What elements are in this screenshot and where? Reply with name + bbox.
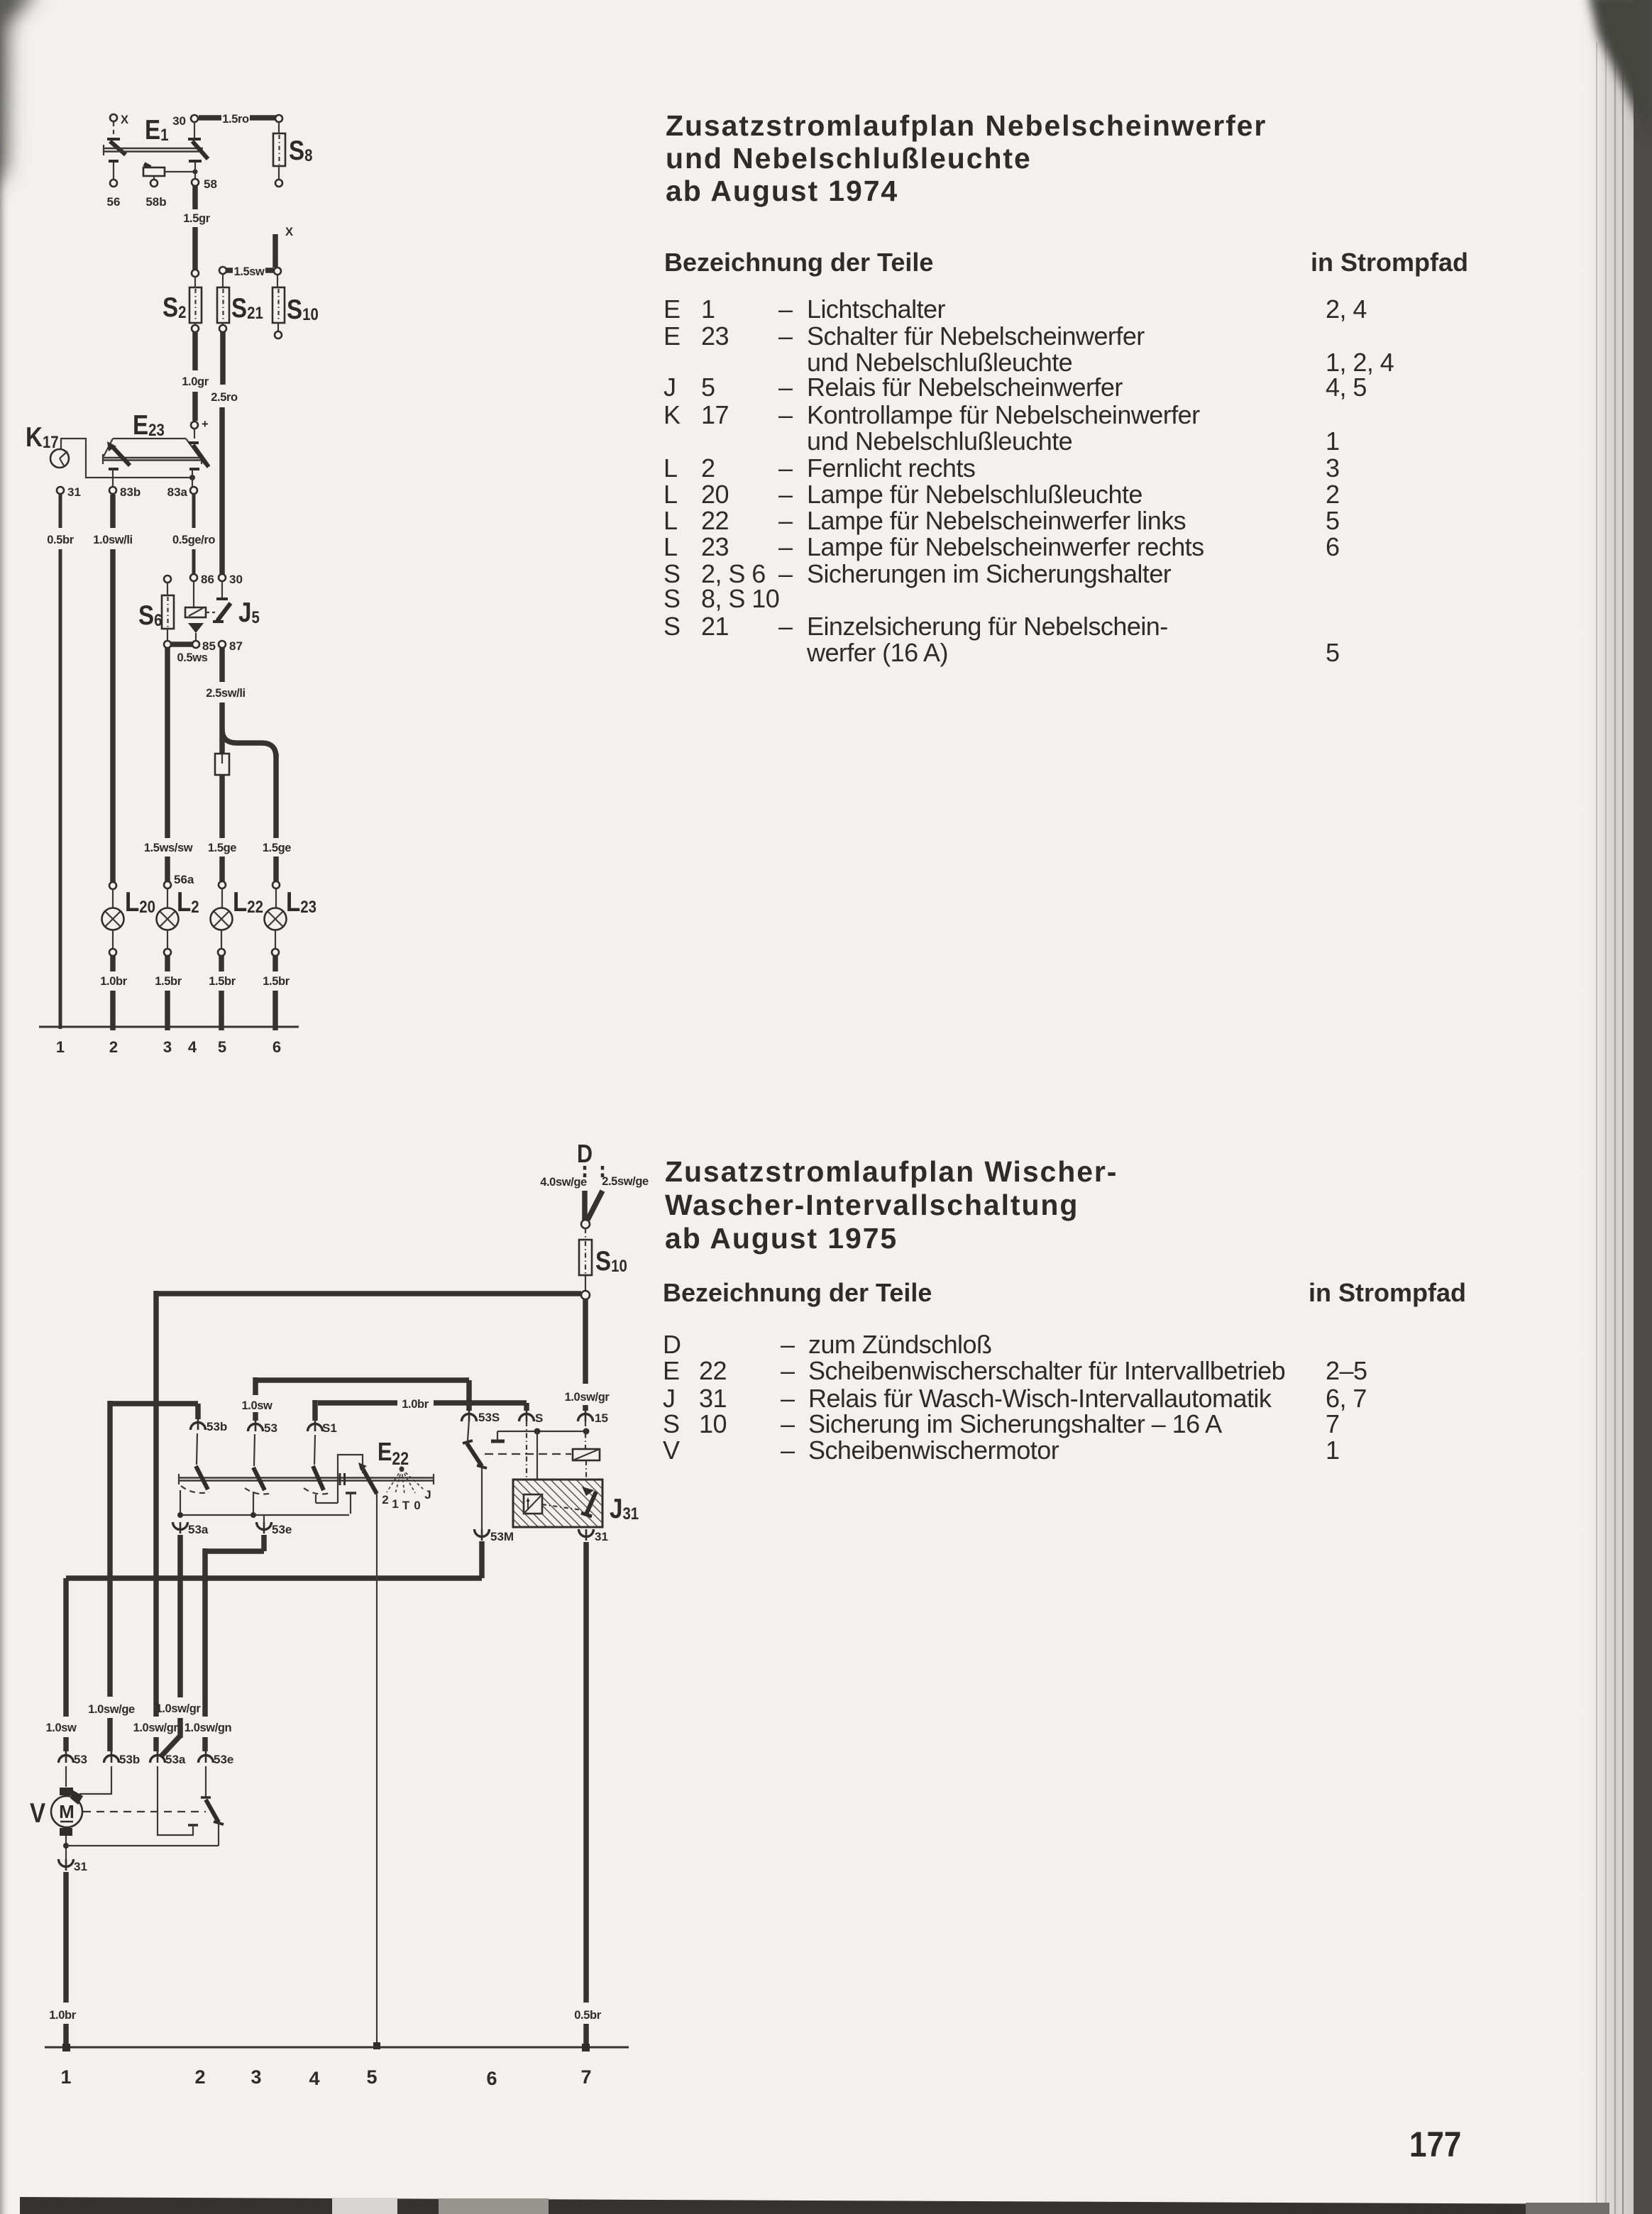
- wire 53M return: [46, 1541, 482, 1751]
- switch E23: [103, 409, 209, 487]
- svg-text:31: 31: [699, 1384, 727, 1413]
- node 85 / 87: [170, 639, 243, 664]
- svg-text:2: 2: [1326, 480, 1339, 509]
- svg-text:Lampe für Nebelscheinwerfer re: Lampe für Nebelscheinwerfer rechts: [807, 532, 1204, 561]
- svg-text:1.0sw/gr: 1.0sw/gr: [156, 1702, 202, 1715]
- svg-text:werfer (16 A): werfer (16 A): [806, 638, 948, 667]
- svg-text:1.5br: 1.5br: [155, 975, 182, 988]
- wire 1.5br lamp L22 to earth: [209, 956, 236, 1030]
- svg-text:V: V: [30, 1797, 45, 1828]
- svg-text:Lichtschalter: Lichtschalter: [807, 294, 946, 324]
- current path numbers 1-6: [56, 1038, 281, 1056]
- svg-text:30: 30: [229, 573, 243, 586]
- svg-text:1: 1: [56, 1038, 65, 1056]
- fuse S10: [579, 1240, 627, 1291]
- node D (to ignition switch): [577, 1140, 602, 1179]
- svg-text:und Nebelschlußleuchte: und Nebelschlußleuchte: [807, 426, 1072, 456]
- svg-text:–: –: [778, 532, 793, 561]
- svg-text:Zusatzstromlaufplan Wischer-: Zusatzstromlaufplan Wischer-: [665, 1155, 1118, 1188]
- svg-text:1.5ge: 1.5ge: [263, 842, 291, 854]
- svg-text:1.0sw/ge: 1.0sw/ge: [88, 1703, 135, 1716]
- right dark book edge: [1634, 0, 1652, 2214]
- svg-text:2, 4: 2, 4: [1326, 294, 1367, 324]
- svg-text:1: 1: [701, 294, 715, 324]
- svg-text:–: –: [781, 1356, 795, 1385]
- svg-text:Scheibenwischermotor: Scheibenwischermotor: [808, 1436, 1059, 1465]
- svg-text:1: 1: [1326, 426, 1339, 456]
- relay contact 53S/53M: [463, 1420, 514, 1543]
- svg-text:L: L: [663, 480, 677, 509]
- fuse S6: [138, 575, 174, 648]
- wire 2.5ro: [211, 332, 238, 574]
- top-left corner shadow: [0, 0, 39, 192]
- svg-text:–: –: [778, 453, 793, 483]
- wire 0.5ge/ro: [172, 495, 215, 574]
- svg-text:Sicherungen im Sicherungshalte: Sicherungen im Sicherungshalter: [807, 559, 1172, 588]
- svg-text:2–5: 2–5: [1326, 1356, 1367, 1385]
- svg-text:Lampe für Nebelschlußleuchte: Lampe für Nebelschlußleuchte: [807, 480, 1142, 509]
- svg-text:–: –: [781, 1384, 795, 1413]
- svg-text:56: 56: [107, 195, 121, 209]
- svg-text:1.0gr: 1.0gr: [182, 375, 209, 388]
- wire 1.5ro: [199, 113, 282, 126]
- svg-text:L: L: [663, 453, 677, 483]
- svg-text:–: –: [778, 400, 793, 429]
- svg-text:30: 30: [172, 114, 186, 128]
- svg-text:Lampe für Nebelscheinwerfer li: Lampe für Nebelscheinwerfer links: [807, 506, 1186, 535]
- svg-text:Sicherung im Sicherungshalter: Sicherung im Sicherungshalter – 16 A: [808, 1409, 1222, 1438]
- svg-text:Bezeichnung der Teile: Bezeichnung der Teile: [664, 248, 933, 277]
- wire branch to lamp L23: [222, 729, 291, 881]
- svg-text:4: 4: [188, 1038, 197, 1056]
- svg-text:177: 177: [1409, 2124, 1461, 2164]
- svg-text:6: 6: [272, 1038, 281, 1056]
- wire 1.0sw to 53: [242, 1377, 277, 1466]
- svg-text:Einzelsicherung für Nebelschei: Einzelsicherung für Nebelschein-: [807, 612, 1168, 641]
- svg-text:83b: 83b: [120, 485, 141, 499]
- E22 output rail: [177, 1490, 349, 1523]
- svg-text:31: 31: [74, 1860, 87, 1873]
- svg-text:4: 4: [309, 2068, 319, 2089]
- svg-text:6, 7: 6, 7: [1326, 1384, 1367, 1413]
- fuse S8: [273, 122, 312, 187]
- svg-text:J: J: [663, 373, 676, 402]
- wire 2.5sw/ge: [588, 1175, 649, 1220]
- lamp L22: [211, 881, 263, 956]
- node above fuse S10: [581, 1220, 590, 1240]
- svg-text:zum Zündschloß: zum Zündschloß: [808, 1330, 991, 1359]
- svg-text:2: 2: [109, 1038, 118, 1056]
- connector 53b (motor): [79, 1751, 140, 1794]
- svg-text:Scheibenwischerschalter für In: Scheibenwischerschalter für Intervallbet…: [808, 1356, 1285, 1385]
- connector 53a (motor): [150, 1751, 199, 1835]
- svg-text:58b: 58b: [145, 195, 166, 209]
- svg-text:M: M: [59, 1801, 75, 1822]
- switch E22: [179, 1438, 434, 1514]
- node 56a: [164, 873, 194, 888]
- wire 1.5ws/sw: [144, 648, 193, 881]
- svg-text:–: –: [778, 294, 793, 324]
- svg-text:J: J: [424, 1488, 431, 1502]
- svg-text:X: X: [121, 114, 128, 126]
- connector 53e (motor): [199, 1751, 234, 1797]
- node 30: [172, 114, 198, 138]
- wire 53e from switch: [185, 1522, 292, 1751]
- svg-text:V: V: [663, 1436, 680, 1465]
- node 31 / 83b / 83a: [57, 485, 197, 499]
- svg-text:53a: 53a: [188, 1523, 209, 1536]
- svg-text:S: S: [663, 1409, 679, 1438]
- svg-text:1.5ws/sw: 1.5ws/sw: [144, 842, 193, 854]
- svg-text:–: –: [778, 612, 793, 641]
- svg-text:1.5ro: 1.5ro: [222, 113, 249, 126]
- main feed wire from S10 to left: [156, 1291, 581, 1296]
- svg-text:1.5sw: 1.5sw: [234, 265, 265, 278]
- svg-text:10: 10: [699, 1409, 727, 1438]
- wire 1.0br lamp L20 to earth: [100, 956, 127, 1030]
- svg-text:E: E: [663, 294, 680, 324]
- svg-text:Zusatzstromlaufplan Nebelschei: Zusatzstromlaufplan Nebelscheinwerfer: [666, 109, 1267, 142]
- svg-text:1: 1: [392, 1497, 398, 1511]
- node X (terminal X of light switch): [110, 114, 128, 138]
- svg-text:20: 20: [701, 480, 729, 509]
- svg-text:Relais für Wasch-Wisch-Interva: Relais für Wasch-Wisch-Intervallautomati…: [808, 1384, 1272, 1413]
- svg-text:7: 7: [1326, 1409, 1339, 1438]
- svg-text:–: –: [778, 480, 793, 509]
- fuse S2: [163, 277, 202, 332]
- wire 2.5sw/li: [206, 648, 246, 754]
- svg-text:T: T: [402, 1499, 410, 1512]
- svg-text:31: 31: [67, 485, 81, 499]
- earth bus diagram 1: [39, 1026, 299, 1028]
- svg-text:0.5br: 0.5br: [574, 2009, 601, 2022]
- svg-text:1.0sw/gr: 1.0sw/gr: [133, 1722, 179, 1734]
- svg-text:1: 1: [60, 2066, 71, 2088]
- connector 53 (motor): [59, 1751, 87, 1787]
- wire 1.5gr: [183, 186, 210, 277]
- svg-text:Relais für Nebelscheinwerfer: Relais für Nebelscheinwerfer: [807, 373, 1123, 402]
- svg-text:4.0sw/ge: 4.0sw/ge: [540, 1176, 587, 1189]
- fuse S10: [272, 275, 319, 338]
- switch E1: [104, 114, 208, 161]
- relay J31: [513, 1480, 639, 1527]
- wire 1.0br motor to earth: [49, 1872, 76, 2045]
- svg-text:21: 21: [701, 612, 729, 641]
- svg-text:Wascher-Intervallschaltung: Wascher-Intervallschaltung: [665, 1189, 1079, 1221]
- svg-text:56a: 56a: [174, 873, 194, 886]
- svg-text:ab August 1974: ab August 1974: [666, 175, 898, 207]
- svg-text:5: 5: [366, 2066, 377, 2088]
- svg-text:53: 53: [264, 1421, 277, 1435]
- svg-text:1.0br: 1.0br: [402, 1398, 429, 1411]
- current path numbers 1-7: [60, 2066, 591, 2089]
- svg-text:0.5ge/ro: 0.5ge/ro: [172, 534, 215, 546]
- svg-text:–: –: [778, 373, 793, 402]
- svg-text:D: D: [577, 1140, 593, 1169]
- svg-text:2.5sw/li: 2.5sw/li: [206, 687, 246, 700]
- svg-text:5: 5: [1326, 638, 1339, 667]
- svg-text:53b: 53b: [206, 1420, 227, 1433]
- svg-text:6: 6: [486, 2068, 497, 2089]
- svg-text:23: 23: [701, 532, 729, 561]
- motor limit switch: [83, 1797, 224, 1846]
- column headers 1: [664, 248, 1468, 277]
- svg-text:und Nebelschlußleuchte: und Nebelschlußleuchte: [666, 142, 1032, 175]
- svg-text:1.0sw: 1.0sw: [242, 1399, 273, 1412]
- svg-text:Schalter für Nebelscheinwerfer: Schalter für Nebelscheinwerfer: [807, 321, 1145, 351]
- svg-text:2: 2: [194, 2066, 205, 2088]
- svg-text:53a: 53a: [165, 1753, 186, 1766]
- svg-text:53e: 53e: [214, 1753, 233, 1766]
- svg-text:15: 15: [595, 1411, 608, 1425]
- svg-text:–: –: [778, 559, 793, 588]
- svg-text:in Strompfad: in Strompfad: [1309, 1278, 1466, 1307]
- svg-text:–: –: [781, 1436, 795, 1465]
- svg-text:3: 3: [250, 2066, 261, 2088]
- earth bus diagram 2: [45, 2044, 629, 2051]
- wire to 53S: [255, 1380, 500, 1424]
- wire 1.5ge (path 5): [208, 775, 236, 881]
- wire 4.0sw/ge: [540, 1176, 587, 1221]
- svg-text:0.5ws: 0.5ws: [177, 651, 208, 664]
- junction node under S10: [581, 1291, 590, 1299]
- svg-text:2: 2: [701, 453, 715, 483]
- svg-text:86: 86: [201, 573, 214, 586]
- relay contact fixed terminal: [491, 1428, 590, 1495]
- svg-text:5: 5: [1326, 506, 1339, 535]
- wire 1.5br lamp L2 to earth: [155, 956, 182, 1030]
- wire 1.5sw: [219, 265, 274, 278]
- svg-text:S: S: [535, 1411, 543, 1425]
- svg-text:1.5ge: 1.5ge: [208, 842, 236, 854]
- lamp L2: [157, 886, 199, 956]
- wire 1.5br lamp L23 to earth: [263, 956, 290, 1030]
- svg-text:87: 87: [229, 639, 243, 653]
- wire 1.0sw/gr (path to 53a): [133, 1291, 179, 1751]
- svg-text:1.0sw/gr: 1.0sw/gr: [565, 1391, 610, 1404]
- svg-text:83a: 83a: [167, 485, 188, 499]
- relay coil J31: [485, 1421, 600, 1480]
- svg-text:1.0sw/li: 1.0sw/li: [93, 534, 133, 546]
- wire J from switch to earth: [373, 1494, 380, 2049]
- svg-text:J: J: [663, 1384, 675, 1413]
- node X feed: [274, 226, 293, 275]
- svg-text:2: 2: [382, 1493, 388, 1507]
- dimmer 58b: [143, 163, 198, 209]
- svg-text:4, 5: 4, 5: [1326, 373, 1367, 402]
- svg-text:8, S 10: 8, S 10: [701, 584, 779, 613]
- svg-text:53S: 53S: [478, 1411, 500, 1424]
- svg-text:Kontrollampe für Nebelscheinwe: Kontrollampe für Nebelscheinwerfer: [807, 400, 1200, 429]
- lamp K17: [26, 421, 192, 478]
- wire 1.0br to S: [308, 1398, 544, 1465]
- svg-text:–: –: [778, 321, 793, 351]
- wire 1.0sw/li: [93, 495, 133, 882]
- column headers 2: [663, 1278, 1466, 1307]
- wire 1.0gr: [182, 332, 209, 431]
- svg-text:E: E: [663, 321, 680, 351]
- svg-text:31: 31: [595, 1530, 608, 1543]
- node 86 / 30: [190, 573, 243, 586]
- svg-text:17: 17: [701, 400, 729, 429]
- motor V: [30, 1788, 83, 1836]
- svg-text:in Strompfad: in Strompfad: [1311, 248, 1468, 277]
- svg-text:K: K: [663, 400, 681, 429]
- right page stack: [1580, 0, 1652, 2214]
- svg-text:5: 5: [701, 373, 715, 402]
- motor earth wire: [59, 1836, 219, 1873]
- left page edge shading: [0, 0, 11, 2214]
- bottom scan bar: [20, 2197, 1609, 2214]
- svg-text:1.0br: 1.0br: [100, 975, 127, 988]
- svg-text:6: 6: [1326, 532, 1339, 561]
- svg-text:–: –: [778, 506, 793, 535]
- svg-text:1.0br: 1.0br: [49, 2009, 76, 2022]
- lamp L20: [102, 882, 155, 956]
- connector on wire 5: [215, 754, 229, 775]
- lamp L23: [265, 881, 316, 956]
- wire 1.0sw/gr (feed to terminal 15): [565, 1299, 610, 1425]
- svg-text:+: +: [202, 418, 208, 431]
- svg-text:S1: S1: [322, 1421, 337, 1435]
- svg-text:1.0sw/gn: 1.0sw/gn: [185, 1722, 232, 1734]
- node 58: [192, 177, 217, 191]
- svg-text:53e: 53e: [272, 1523, 292, 1536]
- svg-text:L: L: [663, 506, 677, 535]
- node 56: [107, 163, 121, 209]
- svg-text:L: L: [663, 532, 677, 561]
- svg-text:22: 22: [701, 506, 729, 535]
- wire 0.5br from J31 to earth: [574, 1529, 608, 2045]
- svg-text:53b: 53b: [119, 1753, 140, 1766]
- svg-text:3: 3: [163, 1038, 172, 1056]
- svg-text:22: 22: [699, 1356, 727, 1385]
- svg-text:53M: 53M: [490, 1530, 514, 1543]
- svg-text:58: 58: [204, 177, 217, 191]
- svg-text:5: 5: [218, 1038, 226, 1056]
- svg-text:2.5ro: 2.5ro: [211, 391, 238, 404]
- relay J5: [185, 581, 260, 641]
- svg-text:1.5br: 1.5br: [209, 975, 236, 988]
- svg-text:1: 1: [1326, 1436, 1339, 1465]
- svg-text:1.0sw: 1.0sw: [46, 1722, 77, 1734]
- svg-text:D: D: [663, 1330, 681, 1359]
- wire 0.5br: [47, 495, 74, 1029]
- svg-text:Bezeichnung der Teile: Bezeichnung der Teile: [663, 1278, 932, 1307]
- svg-text:S: S: [663, 612, 680, 641]
- title block 1: [666, 109, 1267, 207]
- svg-text:0: 0: [414, 1499, 420, 1512]
- svg-text:E: E: [663, 1356, 679, 1385]
- parts list 1: [663, 294, 1394, 667]
- svg-text:53: 53: [74, 1753, 87, 1766]
- svg-text:ab August 1975: ab August 1975: [665, 1222, 898, 1255]
- svg-text:23: 23: [701, 321, 729, 351]
- svg-text:0.5br: 0.5br: [47, 534, 74, 546]
- wire 53a from switch: [156, 1522, 209, 1757]
- svg-text:7: 7: [580, 2066, 591, 2088]
- svg-text:1.5gr: 1.5gr: [183, 212, 210, 225]
- svg-text:2.5sw/ge: 2.5sw/ge: [602, 1175, 649, 1188]
- svg-text:–: –: [781, 1330, 795, 1359]
- svg-text:X: X: [285, 226, 293, 238]
- title block 2: [665, 1155, 1118, 1255]
- svg-text:Fernlicht rechts: Fernlicht rechts: [807, 453, 975, 483]
- parts list 2: [663, 1330, 1367, 1465]
- svg-text:S: S: [663, 584, 680, 613]
- svg-text:–: –: [781, 1409, 795, 1438]
- svg-text:3: 3: [1326, 453, 1339, 483]
- wire to 53b (switch side): [88, 1401, 227, 1751]
- fuse S21: [217, 274, 263, 332]
- svg-text:1.5br: 1.5br: [263, 975, 290, 988]
